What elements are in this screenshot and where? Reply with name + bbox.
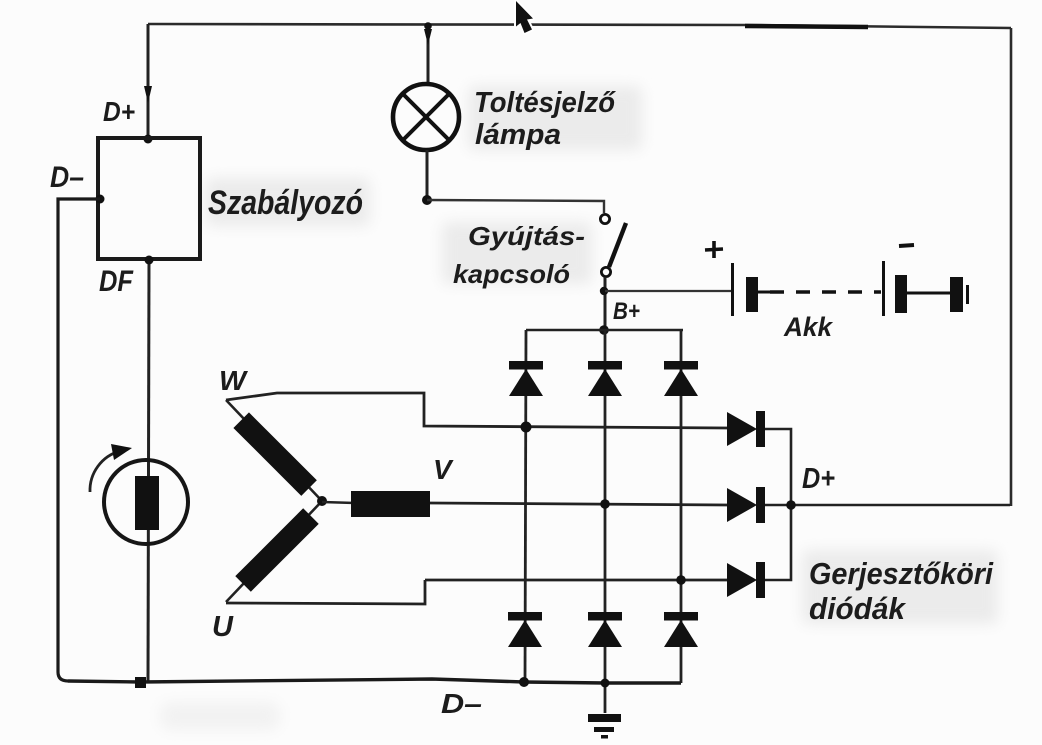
diode bridge bottom 3 — [664, 612, 698, 647]
wire top rail — [148, 24, 1011, 28]
svg-text:D–: D– — [441, 688, 482, 719]
node DF bottom of box — [145, 256, 154, 265]
stator winding V — [322, 491, 430, 517]
rotor bar — [135, 476, 159, 530]
node W bridge junction — [521, 422, 532, 433]
diode bridge top 1 — [509, 361, 543, 396]
wire U lead — [226, 580, 425, 604]
battery terminal plate — [950, 277, 963, 312]
stator winding U — [226, 501, 322, 602]
node lamp bottom junction — [422, 195, 432, 205]
svg-text:V: V — [433, 454, 454, 485]
node V bridge junction — [600, 499, 610, 509]
battery plus sign — [705, 241, 723, 258]
wire DF down through rotor — [148, 260, 149, 682]
svg-text:diódák: diódák — [809, 591, 907, 626]
wire D- left and down — [58, 199, 100, 681]
svg-text:lámpa: lámpa — [475, 119, 561, 151]
battery terminal tick — [966, 285, 969, 304]
wire right side — [1010, 28, 1013, 506]
wire bridge column 1 — [525, 330, 526, 682]
wire top rail thick segment — [745, 26, 868, 27]
switch Gyújtáskapcsoló contact top — [600, 214, 609, 223]
wire lamp bottom — [426, 150, 429, 200]
stator winding W — [226, 400, 322, 501]
arrowhead on D+ wire — [144, 86, 152, 103]
wire battery link — [758, 291, 770, 294]
battery cell2 long plate — [882, 261, 885, 316]
diode bridge top 2 — [588, 361, 622, 396]
wire battery dashed link — [770, 290, 881, 293]
wire battery to terminal — [907, 292, 950, 295]
wire D+ drop to regulator — [147, 24, 150, 137]
rotor circle — [104, 460, 188, 544]
wire bottom rail — [68, 679, 681, 683]
wire lamp drop — [427, 24, 430, 84]
wire bridge top rail — [526, 329, 683, 332]
regulator box Szabályozó — [98, 138, 200, 259]
battery minus sign — [899, 245, 914, 246]
wire to battery — [605, 290, 731, 292]
wire to switch — [427, 200, 604, 213]
node star point — [317, 496, 327, 506]
node lamp top junction — [424, 22, 432, 30]
diode bridge bottom 2 — [588, 612, 622, 647]
battery Akk cell1 long plate — [731, 263, 734, 316]
rotor rotation arrow — [90, 451, 120, 492]
svg-text:Toltésjelző: Toltésjelző — [474, 87, 616, 119]
node bottom rail col1 junction — [519, 677, 529, 687]
svg-text:B+: B+ — [613, 298, 640, 325]
node rotor bottom junction — [135, 677, 146, 688]
battery cell1 short plate — [746, 277, 758, 312]
lamp Töltésjelző — [393, 84, 459, 150]
wire bridge column 3 — [680, 330, 683, 683]
diode bridge bottom 1 — [508, 612, 542, 647]
node D- junction — [96, 195, 105, 204]
node B+ bridge junction — [599, 325, 609, 335]
svg-text:Gyújtás-: Gyújtás- — [468, 221, 585, 251]
cursor pointer — [516, 1, 533, 33]
ground symbol — [588, 714, 621, 739]
node bottom rail col2 junction — [601, 679, 610, 688]
battery cell2 short plate — [895, 275, 907, 313]
svg-text:kapcsoló: kapcsoló — [453, 259, 570, 289]
wire phase U — [425, 579, 728, 582]
wire phase V — [430, 503, 728, 505]
switch contact bottom — [601, 267, 610, 276]
arrowhead on lamp wire — [424, 29, 432, 45]
svg-text:D+: D+ — [802, 463, 835, 495]
svg-text:D+: D+ — [103, 96, 135, 127]
node U bridge junction — [676, 575, 686, 585]
node battery tap junction — [600, 287, 608, 295]
svg-text:Akk: Akk — [783, 312, 834, 342]
node regulator top junction — [144, 135, 153, 144]
svg-text:D–: D– — [50, 161, 84, 194]
wire switch to B+ — [604, 277, 607, 330]
svg-text:Szabályozó: Szabályozó — [208, 184, 363, 222]
diode excitation 3 — [727, 505, 791, 598]
node D+ junction — [786, 500, 796, 510]
svg-text:DF: DF — [99, 265, 134, 298]
svg-text:W: W — [219, 365, 249, 396]
diode excitation 1 — [727, 411, 791, 505]
switch lever — [609, 223, 626, 267]
wire bridge column 2 — [604, 330, 607, 713]
diode bridge top 3 — [664, 361, 698, 396]
diode excitation 2 — [727, 487, 1010, 523]
wire phase W — [226, 393, 728, 428]
svg-text:Gerjesztőköri: Gerjesztőköri — [809, 556, 994, 591]
svg-text:U: U — [212, 611, 234, 643]
